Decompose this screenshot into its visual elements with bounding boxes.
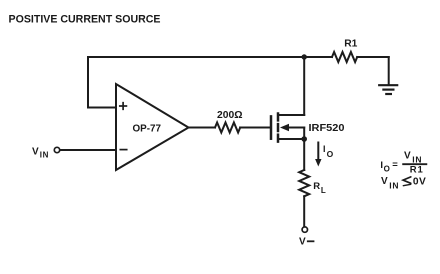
wire RL to terminal: [303, 196, 305, 226]
label IO: [323, 144, 334, 159]
svg-text:O: O: [384, 165, 390, 174]
resistor RL zigzag: [299, 170, 309, 196]
wire resistor to gate: [240, 127, 270, 129]
label Vminus dash: [308, 240, 314, 242]
svg-text:I: I: [323, 144, 326, 154]
wire body to source: [303, 128, 305, 140]
transistor Q1 IRF520 gate bar: [270, 116, 273, 138]
svg-text:R1: R1: [410, 165, 424, 176]
wire op-amp output: [189, 127, 216, 129]
svg-text:IRF520: IRF520: [309, 123, 345, 134]
transistor drain tab: [278, 114, 304, 116]
wire source down to RL: [303, 139, 305, 170]
wire noninverting input stub: [88, 107, 116, 109]
svg-text:IN: IN: [412, 155, 422, 165]
op-amp minus sign: [120, 149, 126, 151]
svg-text:POSITIVE CURRENT SOURCE: POSITIVE CURRENT SOURCE: [9, 13, 161, 25]
equation IO = VIN over R1: [380, 150, 423, 175]
svg-text:V: V: [381, 176, 388, 187]
label Vminus: [299, 236, 306, 247]
svg-text:R1: R1: [344, 39, 357, 50]
wire junction to R1: [304, 56, 332, 58]
svg-text:L: L: [321, 186, 326, 195]
svg-text:V: V: [404, 150, 411, 161]
transistor body arrowhead: [280, 124, 289, 131]
wire drain vertical up: [303, 57, 305, 115]
junction node source: [301, 136, 307, 142]
wire R1 to corner: [357, 56, 389, 58]
wire feedback left vertical: [87, 57, 89, 108]
label RL: [313, 181, 326, 195]
equation VIN le 0V: [381, 176, 426, 191]
svg-text:0V: 0V: [413, 177, 426, 188]
svg-text:=: =: [392, 160, 398, 171]
transistor source tab: [278, 138, 304, 140]
op-amp U1 OP-77 triangle: [116, 84, 189, 170]
transistor channel dash middle: [277, 124, 280, 131]
svg-text:V: V: [32, 147, 39, 158]
svg-text:IN: IN: [40, 151, 49, 160]
transistor body arrow wire: [286, 127, 304, 129]
svg-text:O: O: [327, 149, 334, 159]
svg-text:IN: IN: [389, 181, 399, 191]
terminal Vminus open circle: [302, 227, 307, 232]
svg-text:OP-77: OP-77: [133, 124, 162, 135]
junction node top: [302, 54, 307, 59]
svg-text:200Ω: 200Ω: [217, 110, 243, 121]
equation le sign: [403, 177, 411, 186]
terminal VIN open circle: [54, 147, 59, 152]
op-amp plus sign: [120, 103, 127, 110]
equation fraction bar: [403, 163, 426, 165]
svg-text:R: R: [313, 181, 320, 192]
wire inverting input: [61, 149, 116, 151]
svg-text:V: V: [299, 236, 306, 247]
transistor channel dash top: [277, 114, 280, 121]
current IO arrow: [317, 143, 319, 161]
ground symbol: [379, 85, 397, 94]
current IO arrowhead: [315, 159, 321, 167]
label VIN: [32, 147, 49, 160]
transistor channel dash bottom: [277, 135, 280, 142]
wire down to ground: [388, 57, 390, 85]
wire feedback top horizontal: [88, 56, 304, 58]
resistor R1 zigzag: [332, 52, 357, 62]
resistor 200ohm zigzag: [215, 123, 240, 133]
